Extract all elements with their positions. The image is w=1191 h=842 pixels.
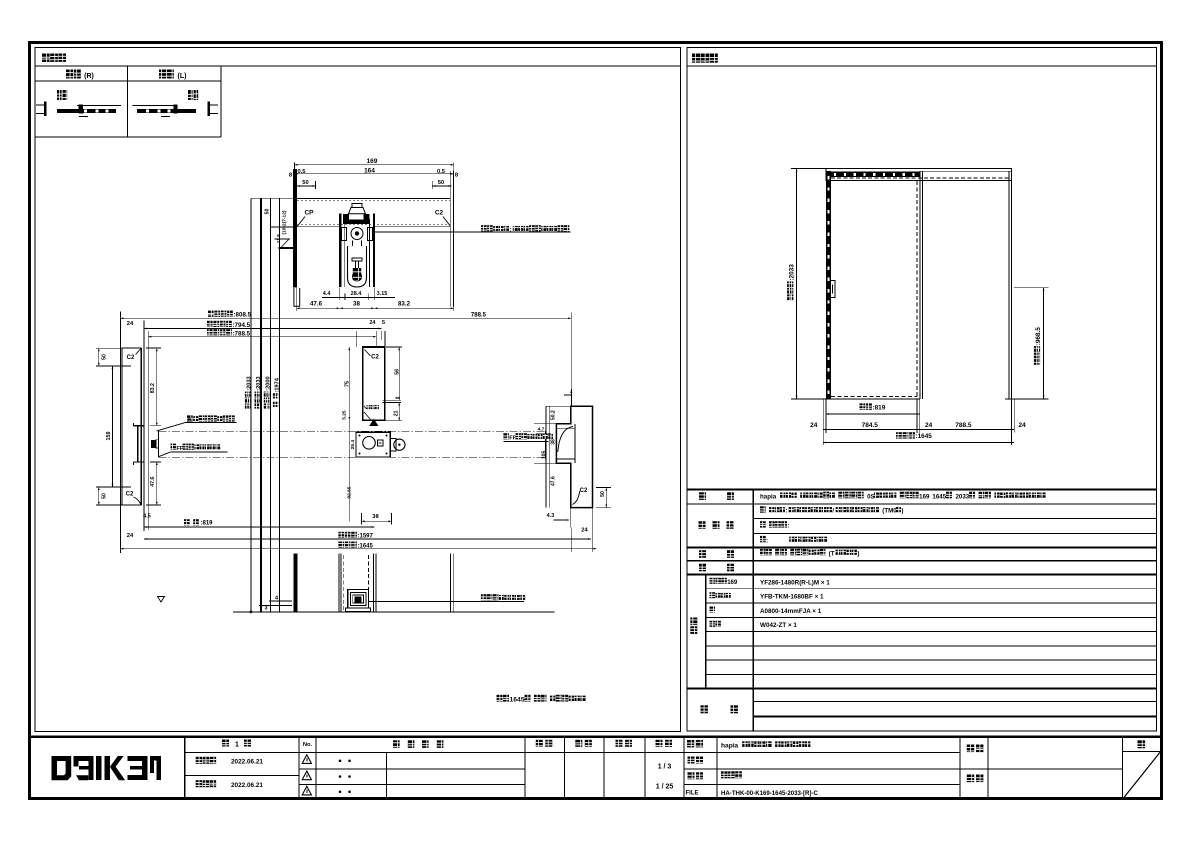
- svg-text:24: 24: [581, 528, 588, 534]
- floor guide: [348, 590, 369, 609]
- dim 50 jamb bottom: [101, 493, 107, 499]
- svg-text::: :: [787, 524, 789, 530]
- svg-text:169: 169: [727, 580, 738, 586]
- elev door leaf: [916, 181, 918, 398]
- hanger wheel: [351, 228, 363, 240]
- front title underline: [687, 65, 1157, 67]
- rot dim (10)2(7-12): [281, 210, 287, 234]
- tb rows name col: [684, 751, 960, 753]
- svg-text::: :: [509, 227, 511, 233]
- svg-text:hapia: hapia: [760, 493, 777, 500]
- tb 名称: [687, 740, 694, 747]
- bottom door lines: [338, 553, 340, 611]
- ext lines top dims: [293, 163, 295, 170]
- R-cell door bar: [57, 109, 116, 113]
- hanger neck: [352, 241, 354, 247]
- door top profile: [348, 246, 367, 287]
- section arrow up: [570, 389, 572, 406]
- spec row 把手 bottom: [687, 560, 1157, 562]
- tb 確認: [575, 740, 582, 747]
- svg-text:HA-THK-00-K169-1645-2033-[R]-C: HA-THK-00-K169-1645-2033-[R]-C: [721, 790, 818, 797]
- svg-text::2033: :2033: [256, 376, 262, 390]
- tb rows sign col: [960, 768, 1123, 770]
- rot dim 47.6 jamb: [550, 476, 556, 486]
- svg-text:(R): (R): [84, 73, 94, 80]
- svg-text:3: 3: [264, 606, 267, 612]
- svg-text::: :: [785, 509, 787, 515]
- svg-text:4.3: 4.3: [547, 513, 555, 519]
- door face line lower: [159, 456, 546, 458]
- svg-text::2033: :2033: [247, 376, 253, 390]
- floor level mark: [158, 597, 165, 603]
- svg-text:C2: C2: [371, 355, 379, 361]
- svg-text:hapia: hapia: [721, 743, 739, 750]
- spec rows 品番: [706, 588, 1157, 590]
- roller lug: [390, 439, 396, 452]
- spec row 仕上2: [753, 533, 1156, 535]
- left panel frame: [35, 48, 681, 732]
- tb rows rev col: [185, 751, 299, 753]
- L-cell upper rail line: [133, 105, 177, 107]
- tb warn triangle 3: [302, 786, 311, 795]
- svg-text:56: 56: [395, 369, 401, 375]
- dim 枠外高2033: [796, 169, 798, 400]
- spec row 備考1: [753, 701, 1156, 703]
- svg-text:C2: C2: [435, 210, 444, 217]
- hanger side plates: [339, 214, 341, 288]
- svg-text:4.7: 4.7: [538, 427, 545, 433]
- svg-text::2033: :2033: [788, 264, 795, 281]
- elev left stile dark: [826, 171, 831, 399]
- svg-text:50: 50: [600, 491, 606, 497]
- spec row 音 bottom: [687, 573, 1157, 575]
- dim 38 roller: [362, 520, 392, 522]
- dim 枠外幅1645: [896, 432, 902, 438]
- svg-text:83.2: 83.2: [150, 383, 156, 393]
- L-cell motion arrow: [161, 116, 170, 118]
- svg-text:788.5: 788.5: [471, 312, 487, 318]
- svg-text:C2: C2: [580, 488, 588, 494]
- door edge box: [363, 347, 385, 420]
- roller body: [356, 432, 390, 457]
- rail housing box: [297, 197, 451, 199]
- chain end dot: [250, 611, 253, 614]
- label 吊FP戸当りキャップ right: [503, 433, 508, 439]
- plan dim line 794.5: [144, 328, 381, 330]
- DAIKEN logo: [52, 756, 72, 780]
- svg-text:1: 1: [235, 741, 239, 748]
- header 右引(R): [66, 70, 73, 79]
- svg-text:YFB-TKM-1680BF × 1: YFB-TKM-1680BF × 1: [760, 594, 824, 601]
- svg-text::1645: :1645: [358, 543, 374, 549]
- R-cell motion arrow: [79, 116, 88, 118]
- svg-text:164: 164: [364, 168, 375, 175]
- svg-text:1 / 3: 1 / 3: [658, 764, 672, 771]
- svg-text:1645: 1645: [510, 697, 525, 704]
- svg-text:4.4: 4.4: [323, 291, 332, 297]
- tb row page: [1123, 751, 1161, 753]
- mini table grid: [127, 66, 129, 137]
- dim row 4.4 28.4 3.15: [322, 297, 395, 299]
- svg-text:): ): [901, 508, 903, 515]
- note 開口1645幅右引: [497, 695, 503, 702]
- svg-text::: :: [766, 538, 768, 544]
- tb warn triangle 2: [302, 771, 311, 780]
- svg-text:92.65: 92.65: [347, 486, 353, 498]
- dim 56 right: [395, 369, 401, 375]
- svg-text:169: 169: [367, 158, 378, 165]
- chain extension lines: [250, 198, 252, 612]
- svg-text:1645: 1645: [932, 493, 946, 500]
- title block verticals: [184, 737, 186, 800]
- L-cell wall bracket right: [209, 104, 218, 106]
- L-cell riser: [173, 105, 177, 114]
- right jamb cap detail: [574, 424, 576, 463]
- door profile bottom detail: [352, 272, 361, 281]
- right panel frame: [687, 48, 1157, 732]
- tb rows hist col: [316, 751, 525, 753]
- spec row 仕上げ bottom: [687, 547, 1157, 549]
- bottom right track: [449, 553, 451, 611]
- spec col label: [752, 489, 754, 730]
- svg-text:25.4: 25.4: [350, 440, 356, 450]
- front view title 正面図: [692, 54, 700, 63]
- right jamb body: [556, 406, 592, 507]
- label 吊戸レール:アルミ金筋シート貼付: [481, 225, 487, 231]
- plan dim 788.5 right: [464, 311, 493, 318]
- tb page diagonal: [1123, 752, 1160, 798]
- dim 159: [106, 432, 112, 441]
- svg-text:YF286-1480R(R-L)M × 1: YF286-1480R(R-L)M × 1: [760, 579, 830, 586]
- tb 改訂履歴 header: [393, 740, 400, 748]
- dim 21: [394, 410, 400, 416]
- svg-text:3.15: 3.15: [377, 291, 388, 297]
- L-cell door bar: [137, 109, 196, 113]
- svg-text:47.6: 47.6: [310, 300, 323, 307]
- left jamb outline: [122, 348, 141, 505]
- tb 制定日: [196, 757, 202, 764]
- ext line far left: [119, 312, 121, 554]
- svg-text:24: 24: [369, 320, 376, 326]
- spec row 備考2: [753, 716, 1156, 718]
- tb 組員: [967, 775, 974, 783]
- L-cell hanger blob: [188, 90, 193, 100]
- rot dim 50.2: [550, 410, 556, 420]
- svg-text:24: 24: [925, 422, 933, 429]
- svg-text::2000: :2000: [265, 376, 271, 390]
- elev top rail: [826, 169, 1012, 181]
- R-cell hanger blob: [57, 90, 62, 100]
- ext line 148: [147, 331, 149, 530]
- svg-text:50: 50: [265, 209, 271, 215]
- svg-text:784.5: 784.5: [862, 422, 879, 429]
- elev bottom ticks: [1005, 398, 1015, 400]
- dim 25.4: [350, 440, 356, 450]
- rail leader line: [375, 231, 571, 233]
- dim 扉幅819: [184, 519, 190, 525]
- dim 枠外幅1645: [120, 548, 596, 550]
- wall stud bar: [293, 169, 297, 288]
- ext line 144: [143, 321, 145, 532]
- svg-text:38: 38: [550, 439, 556, 445]
- door end left: [158, 431, 160, 457]
- dim 169: [294, 164, 453, 166]
- dim 47.6: [150, 476, 156, 486]
- dim 75: [345, 381, 351, 387]
- door edge section triangle: [369, 419, 378, 426]
- svg-text:0.5: 0.5: [437, 169, 446, 175]
- svg-text:50.2: 50.2: [550, 410, 556, 420]
- spec label 要式: [699, 492, 706, 500]
- header 左引(L): [159, 70, 166, 79]
- door end right: [545, 431, 547, 457]
- label 吊戸用ガイドピン: [481, 594, 487, 600]
- tb rows no col: [299, 751, 316, 753]
- section title underline: [35, 65, 681, 67]
- rot label 枠外高2033: [245, 376, 253, 408]
- dim 引残高968.5: [1043, 288, 1045, 399]
- svg-text:11.8: 11.8: [276, 234, 282, 243]
- svg-text:105: 105: [542, 451, 548, 460]
- right jamb ext line: [545, 406, 547, 507]
- svg-text::788.5: :788.5: [233, 330, 251, 337]
- spec table top: [687, 488, 1157, 490]
- tb 頁: [1138, 740, 1146, 748]
- spec label 品番: [690, 618, 697, 626]
- svg-text:(TM0: (TM0: [882, 508, 897, 515]
- svg-text:0.5: 0.5: [297, 169, 306, 175]
- label A面は壁紙等を貼付: [187, 415, 193, 421]
- spec label 備考: [701, 705, 708, 713]
- rail inner dashed lines: [297, 224, 450, 226]
- svg-text:50: 50: [101, 354, 107, 360]
- svg-text::968.5: :968.5: [1035, 327, 1042, 346]
- tick y198: [251, 197, 294, 199]
- svg-text:(T: (T: [829, 550, 835, 557]
- plan dim line 788.5: [148, 336, 376, 338]
- svg-text:CP: CP: [304, 210, 314, 217]
- spec val 仕上3: [760, 536, 766, 542]
- svg-text:No.: No.: [303, 742, 313, 748]
- door stop cap blob: [151, 440, 156, 448]
- tb 改訂日: [196, 780, 202, 787]
- bottom wall bar: [293, 553, 297, 612]
- spec val 仕上2: [760, 521, 766, 527]
- svg-text:788.5: 788.5: [955, 422, 972, 429]
- label 吊FP戸当りキャップ left: [171, 444, 176, 450]
- dim 5.25: [342, 410, 348, 420]
- ext line 592: [591, 508, 593, 552]
- svg-text:8: 8: [394, 396, 399, 399]
- section view title 断面図: [42, 54, 50, 62]
- svg-text:50: 50: [302, 180, 308, 186]
- spec row 要式 bottom: [687, 503, 1157, 505]
- plan dim line 808.5: [120, 317, 571, 319]
- rot label 枠開口2000: [264, 376, 272, 408]
- tb rev dots: [339, 760, 342, 763]
- right casing lines: [449, 171, 451, 307]
- spec sub 扉: [710, 607, 716, 613]
- tick y248 thick: [279, 247, 294, 249]
- wall step bracket: [294, 288, 300, 306]
- guide pin leader: [369, 600, 524, 602]
- svg-text:50: 50: [101, 493, 107, 499]
- spec row 品番 bottom: [687, 688, 1157, 690]
- tb rows small heads: [525, 751, 565, 753]
- svg-text:W042-ZT × 1: W042-ZT × 1: [760, 622, 797, 629]
- hanger side guides: [342, 228, 347, 241]
- tb warn triangle 1: [302, 755, 311, 764]
- dim 83.2: [150, 383, 156, 393]
- svg-text:A0800-14mmFJA × 1: A0800-14mmFJA × 1: [760, 608, 822, 615]
- ext line jamb right: [570, 313, 572, 407]
- svg-text::1974: :1974: [275, 377, 281, 392]
- tb 第1版: [222, 740, 229, 747]
- svg-text:0S: 0S: [867, 493, 875, 500]
- tick y239: [275, 238, 291, 240]
- slash mark: [281, 240, 289, 248]
- svg-text::819: :819: [873, 404, 886, 411]
- tb 図名 value 三面図: [721, 771, 728, 778]
- svg-text:5: 5: [382, 320, 385, 326]
- rot dim 38 jamb: [550, 439, 556, 445]
- tick y227: [271, 226, 294, 228]
- spec label 把手: [699, 550, 706, 558]
- svg-text:(10)2(7-12): (10)2(7-12): [281, 210, 287, 234]
- hanger top bracket: [343, 214, 369, 224]
- svg-text:24: 24: [1018, 422, 1026, 429]
- svg-text:75: 75: [345, 381, 351, 387]
- svg-text::794.5: :794.5: [233, 322, 251, 329]
- door face line upper: [159, 430, 546, 432]
- svg-text:21: 21: [394, 410, 400, 416]
- svg-text:24: 24: [810, 422, 818, 429]
- elev ext verticals: [822, 399, 824, 445]
- spec val 仕上1: [760, 506, 766, 512]
- door profile T-insert: [352, 258, 362, 261]
- roller corner dots: [359, 435, 361, 437]
- dim 枠内幅1597: [144, 538, 591, 540]
- svg-text:47.6: 47.6: [150, 476, 156, 486]
- svg-text::819: :819: [201, 521, 214, 527]
- tb 承認: [536, 740, 543, 747]
- rot label 厚高1974: [273, 377, 281, 407]
- R-cell upper rail line: [77, 105, 121, 107]
- svg-text:C2: C2: [126, 492, 134, 498]
- svg-text:2022.06.21: 2022.06.21: [231, 782, 263, 789]
- svg-text:28.4: 28.4: [351, 291, 363, 297]
- svg-text:38: 38: [353, 300, 360, 307]
- tb 作成: [616, 740, 623, 747]
- svg-text:50: 50: [438, 180, 444, 186]
- svg-text::1597: :1597: [358, 534, 374, 540]
- tb 縮尺: [656, 740, 663, 747]
- svg-text:169: 169: [919, 493, 930, 500]
- ext ticks mid 24-5: [355, 331, 357, 347]
- rot dim 50: [265, 209, 271, 215]
- dim 50 right side: [600, 491, 606, 497]
- door edge cap text: [367, 405, 371, 409]
- dim 92.65: [347, 486, 353, 498]
- svg-text:5.25: 5.25: [342, 410, 348, 420]
- svg-text::808.5: :808.5: [234, 312, 252, 319]
- spec label 音扣: [699, 564, 706, 572]
- svg-text:83.2: 83.2: [398, 300, 411, 307]
- tb 品番: [688, 757, 695, 764]
- svg-text:159: 159: [106, 432, 112, 441]
- svg-text:2022.06.21: 2022.06.21: [231, 759, 263, 766]
- spec label 仕上げ: [699, 521, 706, 529]
- svg-text:(L): (L): [178, 73, 187, 80]
- svg-text:24: 24: [127, 533, 134, 539]
- svg-text:24: 24: [127, 321, 134, 327]
- rot label 枠内高2033: [254, 376, 262, 408]
- elev right frame: [1008, 171, 1010, 399]
- left jamb pocket: [133, 425, 143, 427]
- title block top: [29, 736, 1162, 738]
- tb 図名: [688, 772, 695, 779]
- floor line: [233, 611, 554, 613]
- spec col sub: [705, 574, 707, 688]
- elev handle: [830, 281, 835, 298]
- dim chain 24 784.5 24 788.5 24: [823, 429, 1014, 431]
- spec val 把手: [760, 549, 766, 555]
- svg-text:FILE: FILE: [686, 790, 699, 796]
- svg-text:C2: C2: [127, 355, 135, 361]
- spec sub 引手: [710, 621, 716, 627]
- spec row 仕上1: [753, 517, 1156, 519]
- svg-text:): ): [857, 550, 859, 557]
- svg-text:47.6: 47.6: [550, 476, 556, 486]
- spec sub 上レール: [710, 592, 716, 598]
- spec sub 固定枠169: [710, 578, 716, 584]
- dim 8 small: [394, 396, 399, 399]
- svg-text:38: 38: [372, 514, 379, 520]
- svg-text:2033: 2033: [955, 493, 969, 500]
- door edge hatch: [364, 412, 371, 420]
- R-cell riser: [79, 105, 83, 114]
- svg-text:1 / 25: 1 / 25: [656, 784, 674, 791]
- rot dim 11.8: [276, 234, 282, 243]
- dim 扉幅819: [860, 403, 866, 409]
- R-cell wall bracket left: [36, 104, 45, 106]
- dim 164 row: [294, 173, 453, 175]
- rot dim 105: [542, 451, 548, 460]
- dim row 47.6 38 83.2: [297, 307, 454, 309]
- svg-text::1645: :1645: [916, 433, 933, 440]
- dim 50 jamb top: [101, 354, 107, 360]
- tb 作者: [967, 745, 974, 753]
